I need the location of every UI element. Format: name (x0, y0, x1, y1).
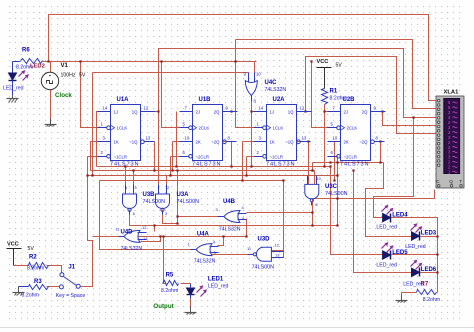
svg-text:LED_red: LED_red (3, 86, 24, 92)
svg-text:100Hz: 100Hz (61, 73, 76, 79)
svg-text:8.2ohm: 8.2ohm (423, 297, 440, 303)
svg-text:LED_red: LED_red (405, 244, 426, 250)
svg-text:10: 10 (185, 136, 190, 141)
svg-text:12: 12 (144, 105, 149, 110)
svg-text:R6: R6 (22, 48, 30, 54)
svg-text:74LS00N: 74LS00N (325, 191, 348, 197)
svg-text:1K: 1K (114, 140, 119, 145)
svg-text:4: 4 (125, 186, 127, 190)
svg-text:10: 10 (256, 72, 261, 77)
svg-text:74LS00N: 74LS00N (143, 199, 166, 205)
svg-text:2K: 2K (196, 140, 201, 145)
svg-text:U1B: U1B (199, 97, 212, 103)
svg-text:1J: 1J (270, 110, 275, 115)
svg-text:R2: R2 (29, 255, 37, 261)
svg-text:1Q: 1Q (132, 110, 138, 115)
svg-text:5V: 5V (336, 63, 343, 69)
svg-text:T: T (459, 179, 462, 184)
svg-text:~2CLR: ~2CLR (196, 154, 210, 159)
svg-text:LED2: LED2 (30, 64, 45, 70)
svg-text:10: 10 (333, 136, 338, 141)
svg-text:LED5: LED5 (392, 250, 408, 256)
svg-text:74LS32N: 74LS32N (265, 87, 287, 93)
svg-text:XLA1: XLA1 (444, 90, 460, 96)
svg-text:12: 12 (142, 225, 147, 230)
svg-text:8.2ohm: 8.2ohm (330, 96, 347, 102)
svg-text:U4C: U4C (265, 80, 278, 86)
svg-text:LED_red: LED_red (208, 284, 229, 290)
svg-text:14: 14 (259, 105, 264, 110)
svg-text:R7: R7 (421, 281, 429, 287)
svg-text:Q: Q (449, 179, 453, 184)
svg-text:9: 9 (307, 177, 309, 181)
svg-text:3: 3 (165, 212, 167, 216)
svg-text:Output: Output (153, 303, 173, 310)
svg-text:74LS73N: 74LS73N (266, 161, 295, 167)
svg-text:~2CLR: ~2CLR (344, 154, 358, 159)
svg-text:12: 12 (275, 243, 280, 248)
svg-text:2CLK: 2CLK (347, 126, 358, 131)
svg-text:R5: R5 (166, 273, 174, 279)
svg-text:13: 13 (302, 136, 307, 141)
svg-text:74LS32N: 74LS32N (121, 246, 143, 252)
svg-text:13: 13 (275, 253, 280, 258)
svg-text:2K: 2K (344, 140, 349, 145)
svg-text:8.2ohm: 8.2ohm (161, 288, 178, 294)
svg-text:1Q: 1Q (288, 110, 294, 115)
svg-text:LED_red: LED_red (376, 262, 397, 268)
svg-text:1K: 1K (270, 140, 275, 145)
svg-text:2Q: 2Q (214, 110, 220, 115)
svg-text:~1Q: ~1Q (129, 140, 138, 145)
svg-text:5: 5 (135, 186, 137, 190)
svg-text:5V: 5V (28, 246, 35, 252)
svg-text:74LS73N: 74LS73N (110, 161, 139, 167)
svg-text:6: 6 (133, 212, 135, 216)
svg-text:74LS32N: 74LS32N (194, 259, 216, 265)
svg-text:13: 13 (143, 236, 148, 241)
svg-text:U3B: U3B (143, 192, 156, 198)
svg-text:VCC: VCC (7, 242, 19, 248)
svg-text:13: 13 (146, 136, 151, 141)
svg-text:LED1: LED1 (208, 277, 224, 283)
svg-text:~1CLR: ~1CLR (270, 154, 284, 159)
svg-text:8.2ohm: 8.2ohm (22, 293, 39, 299)
svg-text:U3C: U3C (325, 184, 338, 190)
svg-text:2Q: 2Q (362, 110, 368, 115)
svg-text:~1Q: ~1Q (285, 140, 294, 145)
svg-text:5V: 5V (79, 73, 86, 79)
svg-text:U3A: U3A (177, 192, 190, 198)
svg-text:~2Q: ~2Q (359, 140, 368, 145)
svg-text:74LS00N: 74LS00N (252, 265, 275, 271)
svg-text:74LS00N: 74LS00N (177, 199, 200, 205)
svg-text:8: 8 (316, 203, 318, 207)
svg-text:R3: R3 (34, 279, 42, 285)
svg-text:~2Q: ~2Q (211, 140, 220, 145)
svg-text:LED6: LED6 (421, 267, 437, 273)
svg-text:U4A: U4A (197, 232, 210, 238)
svg-text:2J: 2J (344, 110, 349, 115)
svg-text:VCC: VCC (317, 59, 329, 65)
svg-text:LED4: LED4 (392, 213, 408, 219)
svg-text:8.2ohm: 8.2ohm (27, 266, 44, 272)
svg-text:LED_red: LED_red (376, 225, 397, 231)
svg-text:~1CLR: ~1CLR (114, 154, 128, 159)
svg-text:74LS73N: 74LS73N (192, 161, 221, 167)
svg-text:J1: J1 (68, 265, 75, 271)
svg-text:U2A: U2A (273, 97, 286, 103)
svg-text:Clock: Clock (55, 92, 72, 99)
svg-text:2: 2 (167, 186, 169, 190)
svg-text:Key = Space: Key = Space (56, 293, 86, 299)
svg-text:V1: V1 (61, 63, 69, 69)
svg-text:1CLK: 1CLK (117, 126, 128, 131)
svg-text:74LS32N: 74LS32N (219, 227, 241, 233)
svg-text:2J: 2J (196, 110, 201, 115)
svg-text:12: 12 (300, 105, 305, 110)
svg-text:1J: 1J (114, 110, 119, 115)
svg-text:U1A: U1A (117, 97, 130, 103)
svg-text:U3D: U3D (258, 237, 271, 243)
svg-text:R1: R1 (330, 89, 338, 95)
svg-text:U4B: U4B (223, 199, 236, 205)
svg-text:1: 1 (158, 186, 160, 190)
svg-text:LED3: LED3 (421, 231, 437, 237)
svg-text:74LS73N: 74LS73N (340, 161, 369, 167)
svg-text:14: 14 (103, 105, 108, 110)
svg-text:10: 10 (317, 177, 321, 181)
svg-text:2CLK: 2CLK (199, 126, 210, 131)
svg-text:U4D: U4D (121, 230, 134, 236)
svg-text:1CLK: 1CLK (273, 126, 284, 131)
